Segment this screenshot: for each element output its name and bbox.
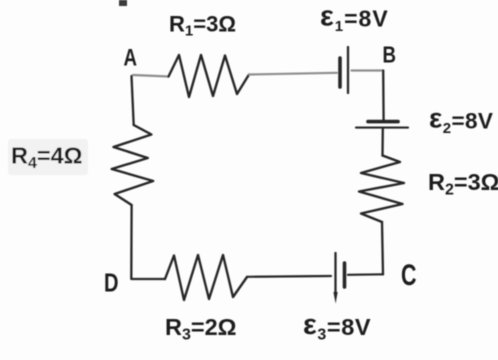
label R1=3ohm xyxy=(169,12,236,40)
battery E1 long plate xyxy=(347,47,349,93)
label R4=4ohm xyxy=(11,143,83,173)
svg-text:ε2=8V: ε2=8V xyxy=(429,103,493,138)
wire E3 to R3 xyxy=(247,275,331,278)
node D xyxy=(104,268,119,298)
wire E1 to node B xyxy=(352,69,384,71)
wire E2 to R2 xyxy=(381,129,384,156)
node A xyxy=(124,45,138,72)
label R2=3ohm xyxy=(428,169,498,199)
battery E1 short plate xyxy=(338,58,342,87)
svg-text:R1=3Ω: R1=3Ω xyxy=(169,12,236,40)
svg-text:R3=2Ω: R3=2Ω xyxy=(165,314,237,344)
label E3=8V xyxy=(303,309,371,344)
svg-text:R4=4Ω: R4=4Ω xyxy=(11,143,83,173)
svg-text:ε3=8V: ε3=8V xyxy=(303,309,371,344)
svg-text:C: C xyxy=(401,259,417,292)
node B xyxy=(383,42,397,68)
wire R4 to node A xyxy=(132,76,134,125)
svg-text:ε1=8V: ε1=8V xyxy=(320,1,389,36)
resistor R1 xyxy=(169,55,250,97)
label E1=8V xyxy=(320,1,389,36)
wire R2 to node C xyxy=(382,222,383,274)
wire R1 to E1 xyxy=(249,73,337,75)
battery E2 short plate xyxy=(368,120,398,124)
wire R3 to node D xyxy=(132,278,165,280)
stray scan mark top edge xyxy=(119,0,127,6)
label E2=8V xyxy=(429,103,493,138)
wire D up to R4 xyxy=(130,205,133,279)
wire B down to E2 xyxy=(382,71,385,121)
svg-text:A: A xyxy=(124,45,138,72)
node C xyxy=(401,259,417,292)
svg-text:R2=3Ω: R2=3Ω xyxy=(428,169,498,199)
resistor R4 xyxy=(112,125,154,205)
wire C to E3 xyxy=(348,273,383,276)
svg-text:B: B xyxy=(383,42,397,68)
battery E2 long plate xyxy=(356,127,408,129)
scan shadow patch behind R4 label xyxy=(8,139,88,175)
resistor R2 xyxy=(359,156,404,223)
battery E3 long plate xyxy=(333,253,337,304)
wire A to R1 xyxy=(133,75,169,77)
resistor R3 xyxy=(165,255,247,300)
label R3=2ohm xyxy=(165,314,237,344)
battery E3 short plate xyxy=(343,263,347,287)
svg-text:D: D xyxy=(104,268,119,298)
